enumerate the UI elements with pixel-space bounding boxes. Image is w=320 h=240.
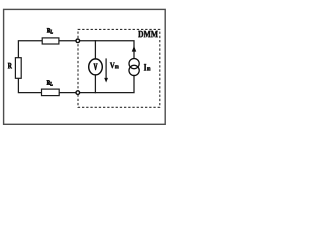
voltmeter V bbox=[89, 59, 103, 75]
resistor RL top bbox=[42, 28, 59, 44]
DMM dashed enclosure box bbox=[78, 29, 160, 107]
wire voltmeter bottom lead bbox=[94, 75, 96, 93]
label Im bbox=[144, 64, 151, 71]
wire bottom RL to terminal bbox=[59, 92, 76, 94]
wire top RL to terminal bbox=[59, 40, 76, 42]
wire voltmeter top lead bbox=[94, 41, 96, 59]
terminal node top bbox=[76, 39, 80, 43]
resistor R bbox=[8, 58, 21, 79]
current source Im double circle bbox=[129, 59, 139, 76]
wire top-left segment bbox=[18, 41, 42, 58]
label Vm bbox=[110, 63, 119, 69]
resistor RL bottom bbox=[42, 80, 60, 95]
arrow Vm voltage drop bbox=[104, 58, 108, 82]
terminal node bottom bbox=[76, 91, 80, 95]
label DMM bbox=[138, 31, 158, 37]
wire bottom-left segment bbox=[18, 78, 41, 92]
arrow Im current direction bbox=[132, 46, 137, 52]
wire top inside DMM to current source bbox=[80, 41, 135, 59]
wire current source bottom lead bbox=[80, 76, 135, 93]
